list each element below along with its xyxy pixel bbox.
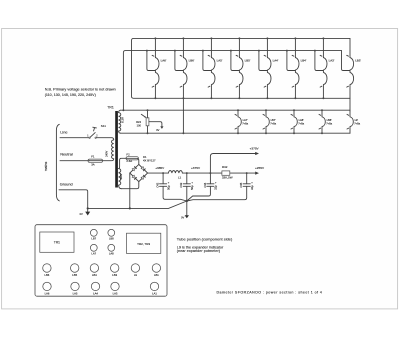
svg-text:C45: C45 (239, 182, 243, 187)
svg-text:TR1: TR1 (107, 105, 114, 109)
svg-text:LA4': LA4' (273, 59, 279, 63)
svg-text:LB4': LB4' (301, 59, 307, 63)
svg-text:Tube position (component side): Tube position (component side) (177, 236, 233, 241)
svg-text:LA6': LA6' (161, 59, 167, 63)
mains brace (56, 124, 59, 201)
tube heater LB6' (top row) (174, 37, 195, 99)
tube LB4 (90, 264, 98, 277)
svg-text:6.3V: 6.3V (120, 117, 124, 123)
capacitor C43 (179, 172, 194, 201)
wire bus3-to-bus5 connector (182, 98, 184, 133)
tube heater L9' (second row) (347, 110, 361, 133)
tube LB6 (43, 264, 51, 277)
svg-text:mains: mains (44, 162, 48, 172)
capacitor C45 (187, 172, 254, 201)
svg-text:F2: F2 (126, 153, 130, 157)
wire Neutral (60, 152, 89, 161)
svg-text:LB7': LB7' (271, 118, 277, 122)
wire Line (60, 130, 89, 138)
svg-text:R42: R42 (222, 165, 228, 169)
arrow output +375V (250, 146, 260, 155)
wire pot wiper to ground (149, 122, 162, 127)
capacitor C42 (156, 172, 187, 201)
svg-text:F1: F1 (91, 154, 95, 158)
svg-text:+375V: +375V (191, 166, 201, 170)
svg-text:100: 100 (137, 123, 142, 127)
wire HT winding bottom to bridge (121, 182, 138, 189)
tube LB1 (152, 264, 160, 277)
svg-text:4X BY127: 4X BY127 (143, 158, 156, 162)
wire +385V rail (148, 172, 169, 174)
svg-text:32μ: 32μ (250, 185, 254, 190)
svg-text:L9: L9 (134, 273, 137, 277)
tube heater LA4' (top row) (258, 37, 279, 99)
tube position box (35, 225, 167, 297)
tube heater LA5' (top row) (202, 37, 223, 99)
svg-text:LA6: LA6 (45, 291, 50, 295)
svg-text:LA4: LA4 (93, 291, 98, 295)
svg-text:LB1: LB1 (154, 273, 159, 277)
wire bridge minus to ground bus (129, 173, 131, 208)
wire 6.3V top bus (bus 4) (121, 109, 350, 111)
node bus2 to 6.3V top bus (122, 109, 124, 111)
svg-text:LB4: LB4 (92, 273, 97, 277)
tube heater LB7' (second row) (263, 109, 277, 134)
svg-text:7+8a: 7+8a (270, 122, 276, 126)
svg-text:LA8': LA8' (299, 118, 305, 122)
svg-text:LA1: LA1 (152, 291, 157, 295)
svg-text:TR2, TR3: TR2, TR3 (137, 242, 150, 246)
tube LB7 (90, 229, 97, 240)
svg-text:50μ: 50μ (166, 185, 170, 190)
svg-text:32μ: 32μ (214, 185, 218, 190)
svg-text:Dameter SFORZANDO : power sect: Dameter SFORZANDO : power section : shee… (217, 290, 323, 294)
tube LA5 (71, 282, 79, 295)
svg-text:0V: 0V (156, 128, 159, 132)
fuse F1 3A (88, 154, 103, 166)
switch S11 (87, 124, 106, 139)
svg-text:(110, 130, 145, 190, 220, 245V: (110, 130, 145, 190, 220, 245V) (45, 93, 96, 97)
svg-text:33K,5W: 33K,5W (222, 176, 233, 180)
winding HT secondary 300V (119, 158, 123, 188)
svg-text:C42: C42 (156, 182, 160, 187)
wire Ground (59, 182, 88, 209)
wire 6.3V bottom bus (bus 5) (121, 132, 350, 134)
svg-text:LB3': LB3' (355, 59, 361, 63)
svg-text:LA7': LA7' (243, 118, 249, 122)
tube heater LA7' (second row) (235, 109, 249, 134)
node star ground (186, 200, 188, 202)
capacitor C44 (187, 172, 218, 201)
svg-text:3A: 3A (91, 162, 95, 166)
tube LA8 (108, 244, 115, 255)
node ground junction (87, 207, 89, 209)
svg-text:LB6: LB6 (45, 273, 50, 277)
winding primary 240V (96, 138, 114, 161)
wire ground bus to star point (88, 201, 187, 208)
svg-text:LB8': LB8' (327, 118, 333, 122)
wire heater bus 1 (top) + left drop + bus 3 (132, 38, 351, 98)
winding 6.3V secondary (119, 110, 125, 133)
svg-text:50μ: 50μ (190, 185, 194, 190)
svg-text:Neutral: Neutral (60, 152, 73, 157)
tube LB8 (108, 229, 115, 240)
tube LB5 (71, 264, 79, 277)
svg-text:S11: S11 (101, 124, 106, 128)
svg-text:LB7: LB7 (91, 237, 96, 241)
diode bridge D1 4X BY127 (130, 155, 156, 181)
tube heater LA3' (top row) (314, 37, 335, 99)
tube heater LA8' (second row) (291, 109, 305, 134)
tube heater LB5' (top row) (230, 37, 251, 99)
svg-text:L1: L1 (178, 175, 182, 179)
svg-text:7+8a: 7+8a (242, 122, 248, 126)
svg-text:7+8a: 7+8a (354, 122, 360, 126)
wire +375V takeoff (210, 154, 255, 174)
svg-text:LA5': LA5' (217, 59, 223, 63)
tube LA1 (150, 282, 158, 295)
svg-text:(near expander potmeter): (near expander potmeter) (177, 249, 220, 253)
tube LA7 (90, 244, 97, 255)
svg-text:+255V: +255V (255, 166, 265, 170)
wire rail after L1 (182, 172, 255, 174)
tube heater LB8' (second row) (319, 109, 333, 134)
svg-text:240V: 240V (105, 151, 109, 157)
tube LA3 (111, 282, 119, 295)
svg-text:C44: C44 (203, 182, 207, 187)
svg-text:Line: Line (60, 130, 67, 135)
svg-text:N.B. Primary voltage selector: N.B. Primary voltage selector is not dra… (45, 87, 116, 91)
inductor L1 (168, 171, 182, 180)
svg-text:LA3': LA3' (329, 59, 335, 63)
ground 0V at pot wiper (156, 126, 163, 132)
svg-text:7+8a: 7+8a (298, 122, 304, 126)
svg-text:LB5: LB5 (72, 273, 77, 277)
note tube position (177, 236, 233, 253)
svg-text:7+8a: 7+8a (326, 122, 332, 126)
transformer TR2 TR3 outline in layout (127, 233, 161, 253)
svg-text:L9': L9' (355, 118, 359, 122)
tube heater LA6' (top row) (146, 37, 167, 99)
earth symbol 0V at transformer (80, 208, 91, 216)
tube heater LB3' (top row) (342, 38, 362, 98)
tube LA4 (91, 282, 99, 295)
svg-text:300V: 300V (119, 173, 123, 179)
wire bus3 right end down to last heater (349, 98, 351, 111)
svg-text:2.4A: 2.4A (126, 159, 132, 163)
transformer TR1 core (115, 111, 118, 188)
tube L9 (131, 264, 139, 277)
svg-text:C43: C43 (179, 182, 183, 187)
svg-text:+385V: +385V (155, 166, 165, 170)
tube LB3 (111, 264, 119, 277)
svg-text:LA8: LA8 (109, 252, 114, 256)
svg-text:LA3: LA3 (113, 291, 118, 295)
wire heater bus 2 + left drop to 6.3V bus (123, 51, 341, 111)
fuse F2 2.4A (121, 153, 138, 165)
tube heater LB4' (top row) (286, 37, 307, 99)
svg-text:0V: 0V (80, 212, 83, 216)
potentiometer R24 hum balance (136, 109, 149, 134)
svg-text:LB3: LB3 (112, 273, 117, 277)
arrow output +255V (255, 166, 265, 175)
ground 0V at star point (181, 201, 189, 220)
svg-text:LA7: LA7 (91, 252, 96, 256)
svg-text:TR1: TR1 (54, 241, 60, 245)
tube LA6 (43, 282, 51, 295)
svg-text:LA5: LA5 (73, 291, 78, 295)
note: primary voltage selector (45, 87, 116, 97)
svg-text:Ground: Ground (60, 182, 73, 187)
svg-text:LB5': LB5' (245, 59, 251, 63)
svg-text:0V: 0V (181, 216, 184, 220)
svg-text:LB6': LB6' (189, 59, 195, 63)
resistor R42 33K 5W (222, 165, 233, 179)
svg-text:+375V: +375V (250, 146, 260, 150)
transformer TR1 outline in layout (40, 232, 74, 252)
svg-text:LB8: LB8 (109, 237, 114, 241)
